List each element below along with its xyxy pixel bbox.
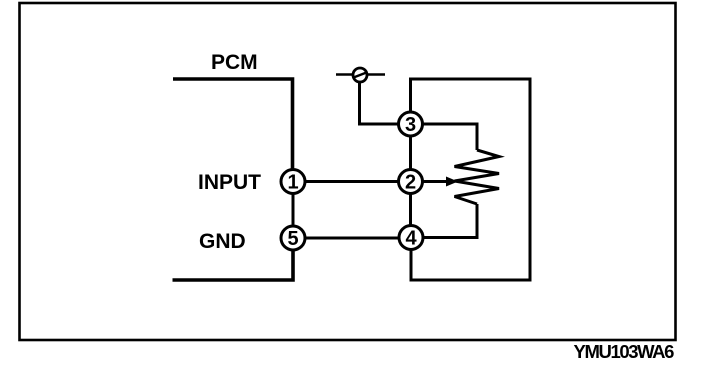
svg-text:YMU103WA6: YMU103WA6	[574, 341, 675, 362]
wire resistor bottom to terminal 4	[424, 204, 478, 238]
power supply terminal symbol	[336, 68, 385, 82]
terminal 4	[399, 226, 423, 250]
wire terminal1 to terminal2	[305, 180, 399, 183]
wire terminal3 to terminal2	[409, 137, 412, 170]
terminal 1	[281, 170, 305, 194]
terminal 5	[281, 226, 305, 250]
wire terminal2 to terminal4	[409, 194, 412, 225]
svg-text:GND: GND	[199, 230, 246, 253]
wire terminal3 to resistor top	[423, 124, 477, 150]
terminal 3	[399, 112, 423, 136]
wire terminal5 to terminal4	[305, 237, 399, 240]
sensor outline box	[411, 79, 531, 280]
svg-text:INPUT: INPUT	[198, 171, 261, 194]
svg-text:5: 5	[287, 228, 298, 250]
svg-text:3: 3	[405, 114, 416, 136]
wiper arrow from terminal 2	[423, 177, 458, 187]
wire power supply to terminal 3	[360, 82, 399, 124]
svg-text:PCM: PCM	[211, 51, 258, 74]
terminal 2	[399, 170, 423, 194]
svg-text:4: 4	[405, 228, 417, 250]
svg-text:2: 2	[405, 172, 416, 194]
resistor element (potentiometer track)	[455, 150, 500, 204]
wire GND connector bottom bracket	[173, 250, 294, 280]
wire PCM connector top bracket	[173, 79, 293, 169]
svg-text:1: 1	[287, 172, 298, 194]
wire terminal1 to terminal5	[292, 194, 295, 227]
